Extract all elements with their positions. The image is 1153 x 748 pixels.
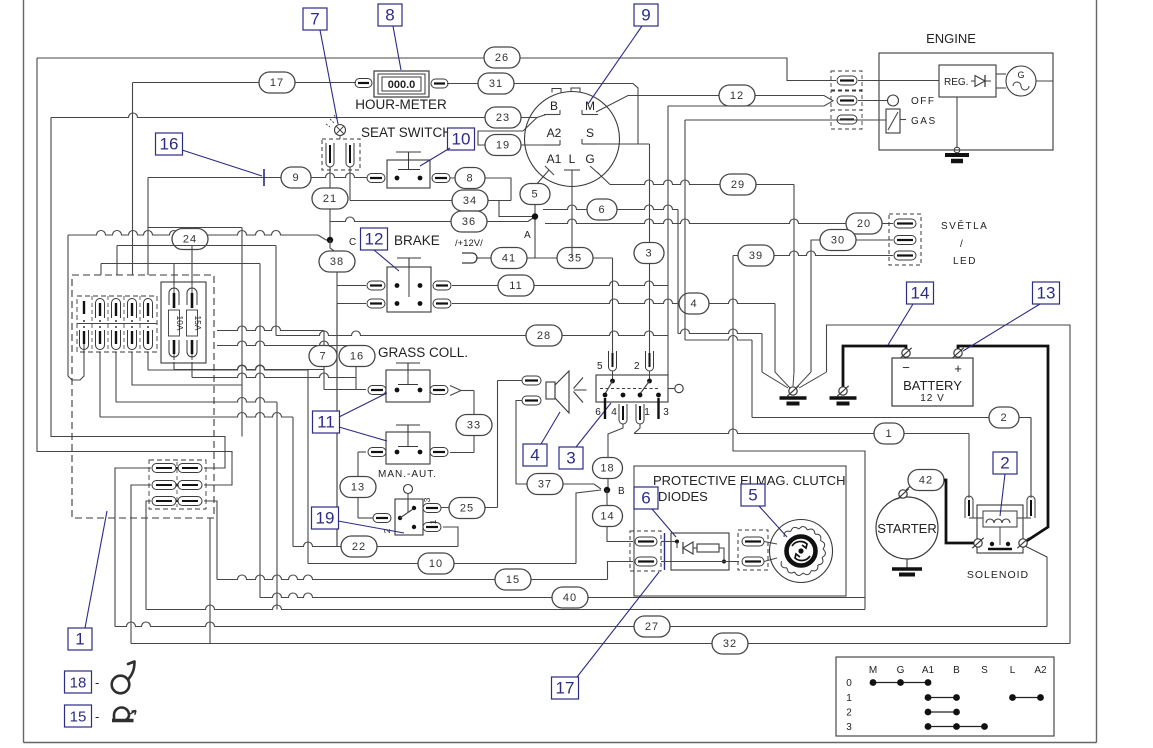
solenoid right bolt	[1019, 539, 1027, 547]
wire bubble 40	[552, 587, 588, 608]
wire into REG	[858, 80, 939, 82]
wire speaker upper drop	[498, 380, 523, 382]
lights pin 2	[894, 236, 916, 245]
wire starter column	[733, 256, 865, 610]
wire conn row3 right out	[204, 501, 217, 580]
callout 9 leader	[588, 26, 642, 104]
callout 12 box	[361, 228, 388, 250]
wire bubble 4	[679, 293, 709, 314]
svg-text:33: 33	[467, 420, 481, 432]
svg-text:M: M	[869, 665, 877, 676]
wire 42 link	[906, 482, 915, 490]
wire bubble 42	[908, 470, 944, 491]
callout 13 box	[1033, 282, 1060, 304]
svg-text:OFF: OFF	[911, 96, 936, 107]
svg-text:31: 31	[489, 78, 503, 90]
wire 21 riser seat connector	[329, 167, 331, 240]
wire bubble 30	[820, 230, 856, 251]
svg-text:35: 35	[568, 253, 582, 265]
wire conn row1 left out	[115, 468, 151, 627]
brake pin right row1	[433, 281, 451, 290]
relay pin 6	[604, 398, 606, 419]
callout 7 leader	[320, 30, 338, 124]
callout 16 leader	[182, 150, 262, 176]
contact A2	[544, 144, 560, 146]
svg-text:12 V: 12 V	[920, 393, 945, 404]
svg-text:39: 39	[749, 250, 763, 262]
wire bubble 23	[485, 107, 521, 128]
svg-text:26: 26	[495, 52, 509, 64]
diode connector right dashed	[738, 530, 768, 570]
GAS box	[886, 109, 900, 133]
wire 3 riser S to relay pin2	[649, 144, 651, 353]
wire bubble 35	[557, 248, 593, 269]
wire big fuse 15A top feed	[191, 246, 193, 286]
svg-text:9: 9	[641, 6, 650, 25]
wire into GAS	[685, 119, 886, 121]
wire 2 into solenoid	[1030, 418, 1032, 499]
svg-text:18: 18	[70, 675, 87, 692]
starter cable	[944, 480, 979, 543]
svg-text:13: 13	[351, 482, 365, 494]
equipment inner box	[634, 466, 846, 596]
brake pin left row2	[367, 299, 385, 308]
diode network	[661, 541, 677, 543]
plug symbol +12V	[462, 253, 477, 263]
svg-text:/: /	[960, 239, 963, 250]
engine box	[879, 53, 1053, 150]
wire bubble 38	[319, 251, 355, 272]
wire brake row2 stub	[337, 303, 366, 305]
callout 7 box	[303, 8, 327, 30]
svg-text:2: 2	[634, 361, 640, 372]
wire A-node link	[499, 201, 535, 217]
wire 14 drop	[607, 490, 633, 542]
contact L	[564, 169, 580, 171]
svg-text:BATTERY: BATTERY	[903, 378, 962, 393]
wire 23 long run	[51, 113, 537, 118]
svg-text:19: 19	[316, 509, 335, 528]
svg-text:6: 6	[641, 489, 650, 508]
svg-text:2: 2	[846, 708, 852, 719]
legend symbol 15	[114, 708, 129, 721]
ground fan	[762, 372, 788, 388]
svg-text:7: 7	[310, 10, 319, 29]
wire fuse col2 feed	[100, 264, 102, 276]
svg-text:−: −	[902, 360, 910, 375]
wire 19/23 bracket	[478, 131, 544, 145]
svg-text:-: -	[95, 675, 99, 690]
svg-text:22: 22	[352, 541, 366, 553]
wire bubble 12	[719, 85, 755, 106]
wire mid riser x242	[241, 228, 243, 437]
svg-text:2: 2	[1000, 454, 1009, 473]
svg-text:4: 4	[530, 446, 539, 465]
callout 2 box	[993, 452, 1017, 474]
seat lamp symbol	[335, 125, 346, 136]
svg-text:8: 8	[466, 173, 473, 185]
wire bubble 31	[478, 73, 514, 94]
svg-text:10: 10	[429, 558, 443, 570]
wire 30 run to lights connector	[811, 240, 893, 372]
svg-text:5: 5	[748, 486, 757, 505]
svg-text:30: 30	[831, 235, 845, 247]
svg-text:5: 5	[531, 189, 538, 201]
svg-text:36: 36	[462, 216, 476, 228]
battery minus cable	[843, 346, 906, 387]
callout 16 box	[156, 133, 183, 155]
seat switch box	[387, 160, 430, 188]
svg-text:34: 34	[463, 195, 477, 207]
border frame left	[23, 0, 25, 743]
svg-text:G: G	[897, 665, 905, 676]
callout 4 leader	[541, 412, 560, 444]
svg-text:SOLENOID: SOLENOID	[967, 569, 1029, 581]
callout 13 leader	[963, 304, 1040, 351]
wire bubble 8	[455, 168, 485, 189]
wire 32 run	[131, 643, 1070, 645]
relay box	[596, 375, 668, 402]
wire bubble 28	[526, 325, 562, 346]
node A junction	[532, 213, 538, 219]
contact B	[544, 114, 560, 116]
wire x51 long left	[51, 118, 225, 469]
hour-meter left pin	[355, 79, 372, 88]
svg-text:25: 25	[460, 503, 474, 515]
svg-text:1: 1	[846, 693, 852, 704]
fuse connector pins	[83, 301, 85, 314]
svg-text:20: 20	[857, 218, 871, 230]
wire 24 run	[68, 231, 318, 236]
legend symbol 18	[112, 676, 130, 694]
wire bubble 20	[846, 213, 882, 234]
solenoid box	[977, 505, 1023, 553]
enclosure top wire	[827, 325, 1071, 644]
callout 5 box	[741, 484, 765, 506]
callout 8 box	[378, 4, 402, 26]
man-aut pin 1	[423, 523, 441, 532]
svg-text:11: 11	[509, 280, 522, 292]
svg-text:21: 21	[323, 193, 337, 205]
fuse 15A	[187, 288, 197, 305]
solenoid coil pin right	[1027, 496, 1035, 518]
svg-text:19: 19	[496, 140, 510, 152]
wire bubble 5	[520, 184, 550, 205]
svg-text:10: 10	[452, 130, 471, 149]
starter circle	[876, 497, 938, 559]
wire clutch link top	[764, 542, 777, 545]
wire 6 run	[543, 205, 678, 210]
callout 19 box	[312, 507, 339, 529]
svg-text:1: 1	[428, 519, 438, 524]
wire 29 run G-contact to ground fan	[597, 172, 610, 185]
callout 14 box	[907, 282, 934, 304]
wire bubble 7	[309, 346, 337, 367]
wire 31 run from hour-meter	[447, 84, 638, 145]
svg-text:24: 24	[183, 234, 197, 246]
wire bubble 15	[495, 569, 531, 590]
wire 40 run	[259, 264, 261, 598]
starter ground	[906, 559, 908, 568]
wire bubble 9	[281, 167, 311, 188]
engine connector pin 1	[837, 76, 857, 85]
svg-text:14: 14	[911, 284, 930, 303]
wire speaker lower drop	[516, 401, 522, 485]
wire conn row3 left out	[146, 501, 151, 610]
callout 3 leader	[576, 403, 611, 447]
wire bubble 19	[485, 135, 521, 156]
wire bubble 3	[634, 243, 664, 264]
brake pin right row2	[433, 299, 451, 308]
svg-text:3: 3	[422, 497, 432, 502]
wire 34 run	[350, 200, 511, 202]
relay pin 3	[657, 398, 659, 419]
wire 5 run A1 to node A	[535, 170, 549, 258]
protective diode box	[671, 533, 729, 570]
svg-text:15: 15	[70, 709, 87, 726]
solenoid coil pin left	[965, 496, 973, 518]
svg-text:37: 37	[538, 479, 552, 491]
svg-text:1: 1	[885, 428, 892, 440]
speaker pin lower	[522, 396, 541, 405]
wire relay pin4 to 18	[608, 424, 623, 489]
callout 14 leader	[888, 304, 913, 345]
wire big fuse 15A out	[191, 362, 193, 378]
seat connector pin 1	[326, 143, 334, 167]
wire 22 run	[293, 542, 458, 547]
callout 17 box	[552, 677, 579, 699]
svg-text:6: 6	[595, 407, 601, 418]
svg-text:17: 17	[556, 679, 575, 698]
regulator box	[939, 65, 996, 97]
svg-text:G: G	[1017, 70, 1024, 80]
wire fuse col2 out to 22	[99, 352, 101, 417]
svg-text:27: 27	[645, 621, 659, 633]
wire 27 run	[115, 622, 1047, 627]
seat connector pin 2	[346, 143, 354, 167]
hour-meter right pin	[431, 79, 448, 88]
svg-text:29: 29	[731, 179, 745, 191]
svg-text:1: 1	[644, 407, 650, 418]
contact M	[582, 114, 598, 116]
relay pin 1	[636, 404, 644, 424]
relay pin 4	[619, 404, 627, 424]
node B junction	[604, 487, 610, 493]
callout 18 box	[65, 671, 92, 693]
wire 11 run	[452, 281, 668, 286]
engine ground	[956, 97, 958, 148]
contact S	[582, 143, 598, 145]
svg-text:4: 4	[611, 407, 617, 418]
wire 39 run to lights connector	[733, 251, 893, 256]
callout 11 leaders	[339, 393, 387, 417]
wire bubble 22	[341, 536, 377, 557]
wire 4 run brake to ground fan	[452, 299, 775, 304]
wire fuse col1 out	[83, 340, 85, 352]
svg-text:40: 40	[563, 592, 577, 604]
svg-text:8: 8	[385, 6, 394, 25]
wire 10 run	[308, 563, 576, 565]
wire bubble 41	[491, 248, 527, 269]
svg-text:REG.: REG.	[944, 77, 968, 88]
svg-text:G: G	[585, 152, 594, 166]
generator wires	[996, 73, 1006, 75]
svg-text:A1: A1	[547, 152, 562, 166]
svg-text:ENGINE: ENGINE	[926, 31, 976, 46]
wire clutch link bottom	[764, 558, 777, 562]
svg-text:3: 3	[846, 722, 852, 733]
elmag clutch gear	[770, 520, 833, 583]
svg-text:13: 13	[1037, 284, 1056, 303]
svg-text:PROTECTIVE: PROTECTIVE	[653, 473, 736, 488]
wire bubble 11	[498, 275, 534, 296]
generator circle	[1006, 66, 1036, 96]
lights pin 3	[894, 251, 916, 260]
svg-text:5: 5	[597, 361, 603, 372]
battery ground bolt	[839, 387, 847, 395]
disconnect tick on wire 9	[263, 169, 265, 186]
wire bubble 27	[634, 616, 670, 637]
svg-text:3: 3	[663, 407, 669, 418]
man-aut switch box	[395, 499, 423, 535]
svg-text:B: B	[550, 99, 558, 113]
svg-text:3: 3	[566, 449, 575, 468]
svg-text:A1: A1	[922, 665, 935, 676]
callout 6 box	[634, 487, 658, 509]
battery minus bolt	[902, 349, 910, 357]
fuse connector inner dashed box	[77, 296, 157, 352]
battery ground symbol	[830, 396, 857, 400]
svg-text:15A: 15A	[193, 315, 203, 330]
wire bubble 29	[720, 174, 756, 195]
diode connector right pin2	[742, 557, 764, 566]
wire bubble 6	[587, 199, 617, 220]
svg-text:A2: A2	[547, 126, 562, 140]
svg-text:28: 28	[537, 330, 551, 342]
solenoid contacts	[990, 542, 994, 546]
svg-text:3: 3	[645, 248, 652, 260]
engine connector pin 3	[837, 115, 857, 124]
wire 20 run to lights connector	[545, 219, 893, 224]
fuse panel outer dashed box	[72, 275, 214, 518]
svg-text:S: S	[586, 126, 594, 140]
wire 609 run	[146, 605, 865, 610]
hour-meter body	[374, 71, 429, 97]
svg-text:000.0: 000.0	[388, 79, 416, 91]
solenoid coil	[983, 511, 1017, 527]
svg-text:S: S	[981, 665, 988, 676]
svg-text:14: 14	[600, 511, 614, 523]
wire bubble 36	[451, 211, 487, 232]
speaker symbol	[546, 382, 555, 399]
seat switch left pin	[367, 174, 385, 183]
diode connector right pin1	[742, 537, 764, 546]
man-aut pin left	[373, 514, 391, 523]
wire brake drop to 22	[336, 304, 338, 547]
wire bubble 13	[340, 477, 376, 498]
battery box	[892, 358, 973, 406]
wire 9 run with disconnect tick	[148, 173, 367, 177]
wire grass1 right chevron	[450, 386, 461, 391]
svg-text:HOUR-METER: HOUR-METER	[355, 97, 447, 112]
svg-text:0: 0	[846, 678, 852, 689]
svg-text:38: 38	[330, 256, 344, 268]
relay pin 2 top	[646, 351, 654, 371]
wire fuse col4 out	[132, 352, 242, 385]
svg-text:11: 11	[317, 413, 335, 432]
fuse 10A	[169, 288, 179, 305]
wire bubble 2	[989, 407, 1019, 428]
wire 17 drop to fuse col4	[132, 83, 134, 276]
svg-text:DIODES: DIODES	[658, 489, 708, 504]
svg-text:/+12V/: /+12V/	[455, 238, 483, 249]
wire top h227	[148, 227, 242, 229]
wire big fuse 10A top feed	[173, 264, 175, 286]
wire 26 run to engine	[37, 58, 836, 81]
seat switch right pin	[432, 174, 450, 183]
battery plus bolt	[954, 349, 962, 357]
man-aut pin 3	[423, 504, 441, 513]
wire bubble 37	[527, 474, 563, 495]
wire brake row1 stub	[337, 285, 366, 287]
wire seat pin2 drop	[349, 167, 351, 201]
wire 28 feed riser	[275, 246, 277, 336]
svg-text:BRAKE: BRAKE	[394, 233, 440, 248]
callout 19 leader	[338, 521, 404, 533]
svg-text:+: +	[954, 361, 962, 376]
wire 33 riser	[473, 391, 475, 453]
wire w24 feed to fuse col1	[68, 235, 84, 380]
diode connector left pin1	[635, 537, 657, 546]
wire fuse col3 out	[115, 352, 117, 402]
wire conn row2 left out	[131, 485, 151, 644]
svg-text:32: 32	[723, 638, 737, 650]
grass switch 1	[386, 370, 430, 402]
svg-text:B: B	[953, 665, 960, 676]
wire bubble 34	[452, 190, 488, 211]
svg-text:L: L	[1010, 665, 1016, 676]
wire bubble 10	[418, 553, 454, 574]
wire 38 riser node C to brake	[330, 240, 337, 547]
contact A1	[545, 166, 554, 175]
wire L-contact riser	[571, 170, 573, 258]
wire 36 run	[330, 217, 528, 222]
svg-text:17: 17	[270, 77, 284, 89]
starter bolt	[899, 490, 907, 498]
callout 12 leader	[374, 250, 399, 271]
svg-text:L: L	[569, 152, 576, 166]
callout 5 leader	[759, 506, 787, 537]
svg-text:GRASS COLL.: GRASS COLL.	[378, 345, 468, 360]
wire bubble 32	[712, 633, 748, 654]
svg-text:STARTER: STARTER	[877, 521, 936, 536]
wire +12V tail	[476, 257, 491, 259]
border frame right	[1096, 0, 1098, 743]
speaker pin upper	[522, 376, 541, 385]
callout 17 leader	[577, 572, 659, 677]
svg-text:6: 6	[598, 204, 605, 216]
svg-text:42: 42	[919, 475, 933, 487]
wire fuse col3 feed	[116, 246, 118, 276]
svg-text:4: 4	[690, 298, 697, 310]
wire 9 drop to fuse col5	[147, 178, 149, 276]
wire x37 long left	[37, 58, 232, 485]
wire bubble 39	[738, 245, 774, 266]
wire 15 run	[217, 575, 608, 579]
svg-text:A2: A2	[1034, 665, 1047, 676]
svg-text:SVĚTLA: SVĚTLA	[941, 219, 988, 232]
engine connector pin 2	[837, 96, 857, 105]
